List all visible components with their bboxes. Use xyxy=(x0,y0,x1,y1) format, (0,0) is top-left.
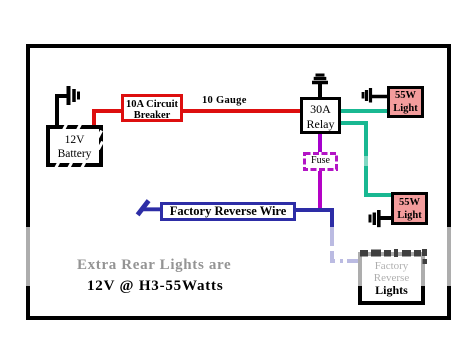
wire blue horizontal to FRL box xyxy=(330,259,360,263)
junction node: fuse feed joins factory reverse wire xyxy=(318,208,322,212)
wire blue FRW box to corner xyxy=(294,208,334,212)
frame border xyxy=(26,44,451,320)
caption line 2 xyxy=(87,278,223,295)
wire teal to 55W light 2 xyxy=(364,193,392,197)
watermark patch on teal wire xyxy=(363,156,369,166)
arrow factory reverse wire xyxy=(138,201,161,215)
ground light1 (left-pointing bars) xyxy=(363,88,387,103)
wire teal vertical xyxy=(364,121,368,197)
ground relay (up-pointing bars) xyxy=(312,75,328,97)
caption line 1 xyxy=(77,257,231,274)
light 55W #2 xyxy=(391,192,428,225)
ground battery (right-pointing bars) xyxy=(69,86,79,105)
wire teal relay down-branch horizontal xyxy=(339,121,368,125)
factory reverse wire box xyxy=(160,202,296,221)
factory reverse lights box xyxy=(358,252,425,305)
wire purple relay to fuse xyxy=(318,132,322,153)
fuse F1 xyxy=(303,152,338,171)
wire black battery ground horizontal xyxy=(55,94,67,98)
fuse dashed border xyxy=(305,154,337,170)
relay 30A xyxy=(300,97,341,134)
battery 12V xyxy=(46,125,103,167)
ground light2 (left-pointing bars) xyxy=(370,210,391,228)
wire red breaker to relay (10 Gauge) xyxy=(180,109,302,113)
wire teal relay to 55W light 1 xyxy=(339,109,389,113)
wire red battery riser xyxy=(92,109,96,126)
wire red battery to breaker xyxy=(92,109,123,113)
label 10 Gauge xyxy=(202,95,247,106)
wire gap marks (watermark) xyxy=(329,246,335,251)
wire black battery to ground riser xyxy=(55,94,59,126)
circuit breaker CB1 xyxy=(121,94,183,122)
wire blue corner down xyxy=(330,208,334,263)
watermark band overlay xyxy=(0,227,474,286)
light 55W #1 xyxy=(387,86,424,118)
battery watermark slashes xyxy=(61,123,68,133)
wire magenta fuse down to junction xyxy=(318,170,322,211)
